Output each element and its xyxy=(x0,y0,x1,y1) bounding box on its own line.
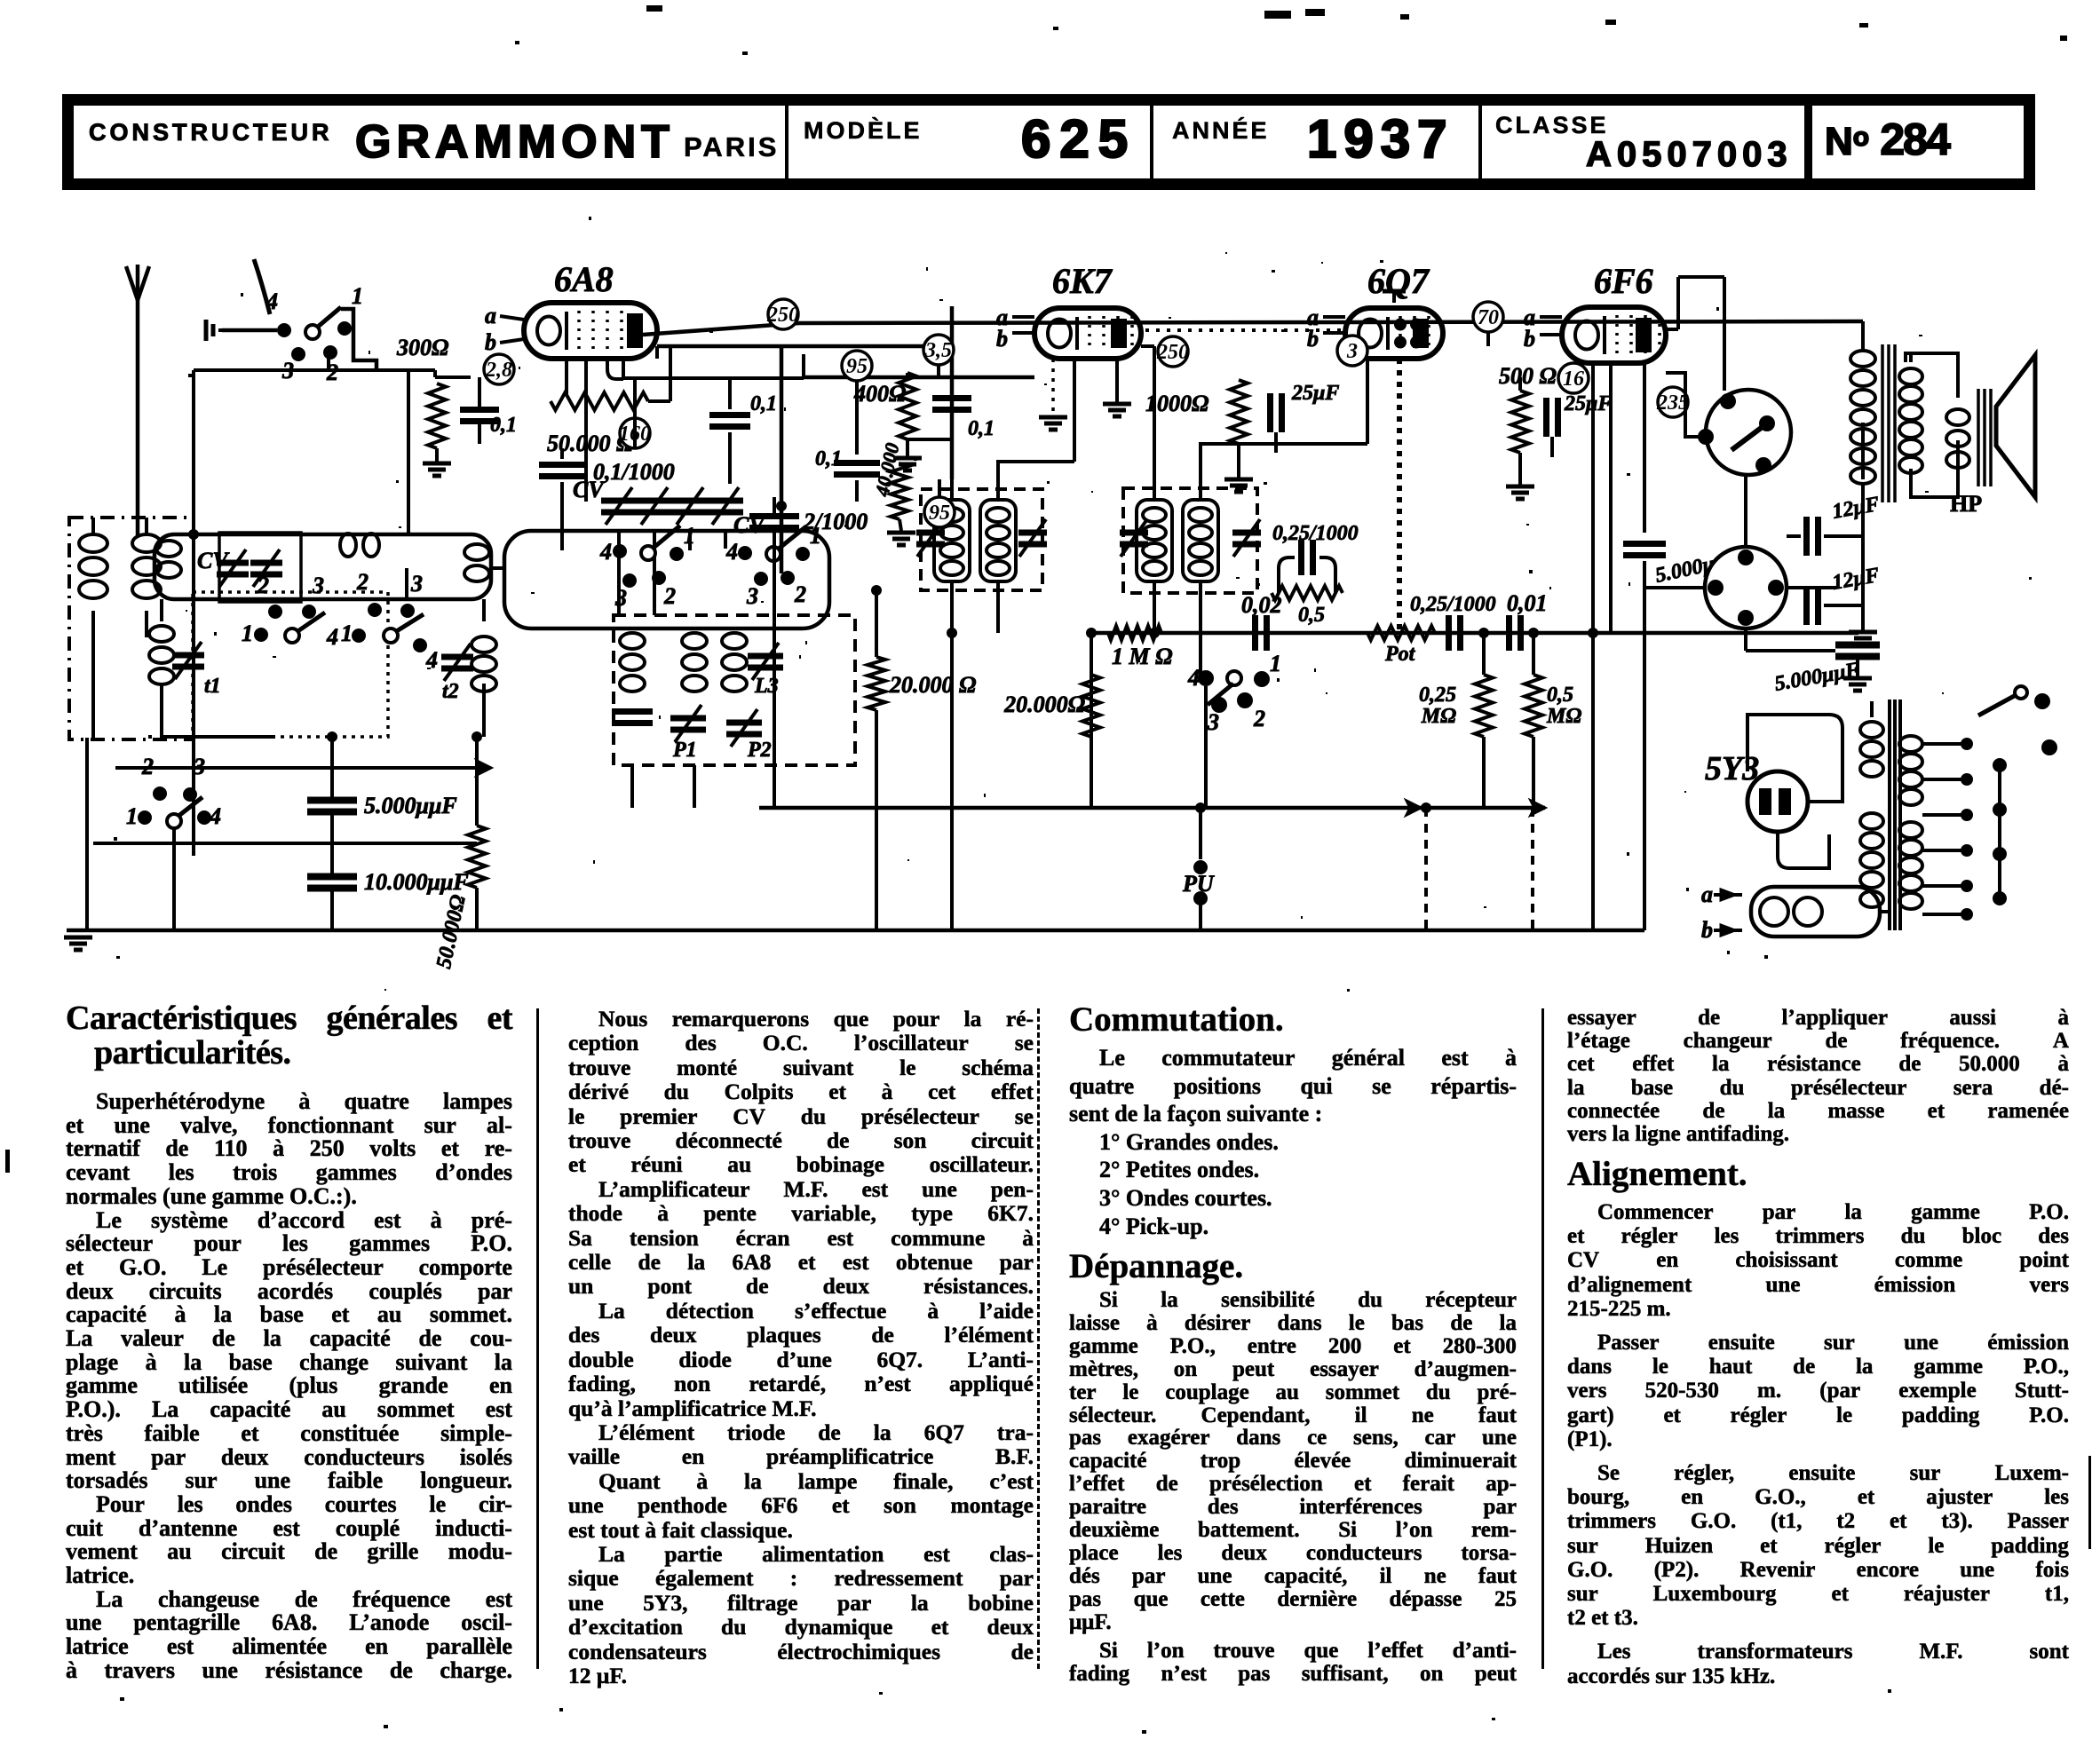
svg-text:4: 4 xyxy=(1187,665,1200,691)
svg-text:t1: t1 xyxy=(204,675,221,698)
svg-text:1: 1 xyxy=(126,803,138,829)
svg-text:0,1: 0,1 xyxy=(815,447,842,470)
svg-text:1: 1 xyxy=(341,621,353,646)
svg-text:25μF: 25μF xyxy=(1291,382,1339,405)
svg-text:16: 16 xyxy=(1563,368,1584,391)
svg-text:4: 4 xyxy=(599,539,612,565)
svg-text:1000Ω: 1000Ω xyxy=(1145,391,1208,416)
svg-text:4: 4 xyxy=(326,624,338,650)
svg-text:P2: P2 xyxy=(747,739,772,762)
svg-text:a: a xyxy=(485,303,496,328)
svg-text:6K7: 6K7 xyxy=(1052,261,1113,301)
svg-text:MΩ: MΩ xyxy=(1546,705,1581,728)
svg-text:3: 3 xyxy=(1207,709,1219,735)
svg-text:b: b xyxy=(996,326,1008,352)
svg-text:t2: t2 xyxy=(442,680,459,703)
svg-text:20.000 Ω: 20.000 Ω xyxy=(889,672,976,698)
svg-text:0,1: 0,1 xyxy=(490,414,517,437)
svg-text:2/1000: 2/1000 xyxy=(803,509,868,534)
svg-text:0,5: 0,5 xyxy=(1547,684,1573,707)
svg-text:CV: CV xyxy=(573,477,606,502)
svg-text:20.000Ω: 20.000Ω xyxy=(1003,692,1085,717)
svg-text:250: 250 xyxy=(1156,341,1189,364)
svg-text:6F6: 6F6 xyxy=(1594,261,1653,301)
svg-text:3,5: 3,5 xyxy=(924,339,952,362)
svg-text:2: 2 xyxy=(1253,706,1265,731)
svg-text:1: 1 xyxy=(242,621,253,646)
svg-text:10.000μμF: 10.000μμF xyxy=(364,869,469,895)
svg-text:2: 2 xyxy=(356,569,368,595)
svg-text:95: 95 xyxy=(929,502,950,525)
svg-text:2: 2 xyxy=(663,583,676,609)
svg-text:4: 4 xyxy=(265,289,278,314)
svg-text:500 Ω: 500 Ω xyxy=(1499,363,1557,389)
svg-text:0,25: 0,25 xyxy=(1419,684,1456,707)
svg-text:1 M Ω: 1 M Ω xyxy=(1112,644,1173,669)
svg-text:0,02: 0,02 xyxy=(1241,592,1282,618)
svg-text:b: b xyxy=(1524,326,1535,352)
svg-text:0,5: 0,5 xyxy=(1298,604,1325,627)
svg-text:0,1: 0,1 xyxy=(750,392,777,415)
svg-text:5.000μμF: 5.000μμF xyxy=(364,793,457,818)
svg-text:P1: P1 xyxy=(672,739,697,762)
svg-text:4: 4 xyxy=(725,539,738,565)
svg-text:12μF: 12μF xyxy=(1831,493,1882,524)
svg-text:a: a xyxy=(1701,881,1713,907)
svg-text:250: 250 xyxy=(766,304,799,327)
svg-text:3: 3 xyxy=(410,571,423,597)
svg-text:0,1: 0,1 xyxy=(968,417,995,440)
svg-text:MΩ: MΩ xyxy=(1421,705,1456,728)
svg-text:300Ω: 300Ω xyxy=(396,335,448,360)
svg-text:5.000μμF: 5.000μμF xyxy=(1773,659,1862,696)
svg-text:4: 4 xyxy=(209,803,221,829)
svg-text:HP: HP xyxy=(1950,491,1982,517)
svg-text:2,8: 2,8 xyxy=(485,359,512,382)
svg-text:3: 3 xyxy=(312,573,324,598)
svg-text:25μF: 25μF xyxy=(1564,392,1612,415)
svg-text:2: 2 xyxy=(257,573,269,598)
svg-text:95: 95 xyxy=(846,355,868,378)
svg-text:2: 2 xyxy=(794,581,806,607)
svg-text:12μF: 12μF xyxy=(1831,564,1882,595)
svg-text:0,1/1000: 0,1/1000 xyxy=(593,459,675,485)
svg-text:6A8: 6A8 xyxy=(554,259,614,299)
svg-text:b: b xyxy=(485,329,496,355)
svg-text:1: 1 xyxy=(1270,651,1281,676)
svg-text:6Q7: 6Q7 xyxy=(1367,261,1430,301)
svg-text:1: 1 xyxy=(352,283,363,309)
svg-text:1: 1 xyxy=(684,523,695,549)
svg-text:3: 3 xyxy=(614,585,627,611)
svg-text:0,25/1000: 0,25/1000 xyxy=(1410,593,1496,616)
svg-text:400Ω: 400Ω xyxy=(853,381,906,407)
svg-text:5Y3: 5Y3 xyxy=(1705,750,1759,787)
svg-text:b: b xyxy=(1701,917,1713,943)
svg-text:0,01: 0,01 xyxy=(1507,590,1548,616)
svg-text:3: 3 xyxy=(1346,340,1358,363)
svg-text:b: b xyxy=(1307,326,1319,352)
svg-text:Pot: Pot xyxy=(1384,643,1416,666)
svg-text:3: 3 xyxy=(746,583,758,609)
svg-text:70: 70 xyxy=(1478,306,1499,329)
